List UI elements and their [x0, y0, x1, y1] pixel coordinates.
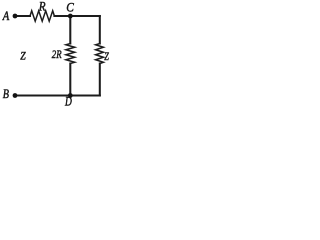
- node C junction dot: [68, 14, 73, 19]
- wire top: A to resistor R: [15, 15, 30, 17]
- resistor Z: [96, 44, 104, 64]
- svg-text:C: C: [66, 0, 74, 14]
- wire bottom: node D to bottom-right corner: [70, 94, 100, 96]
- resistor 2R: [66, 44, 75, 64]
- wire bottom: B to node D: [15, 94, 70, 96]
- svg-text:B: B: [3, 86, 9, 101]
- wire right: Z down to bottom corner: [99, 64, 101, 96]
- svg-text:A: A: [2, 8, 9, 23]
- svg-text:R: R: [38, 0, 46, 14]
- resistor R: [30, 11, 54, 21]
- wire top: node C to top-right corner: [70, 15, 100, 17]
- wire middle: node C down to resistor 2R: [69, 16, 71, 44]
- svg-text:Z: Z: [104, 51, 109, 63]
- wire right: corner down to resistor Z: [99, 16, 101, 44]
- svg-text:Z: Z: [20, 50, 26, 62]
- node B terminal dot: [13, 93, 18, 98]
- node A terminal dot: [13, 14, 18, 19]
- svg-text:D: D: [64, 94, 72, 108]
- wire middle: 2R down to node D: [69, 64, 71, 96]
- wire top: R to node C: [54, 15, 70, 17]
- svg-text:2R: 2R: [52, 47, 62, 61]
- node D junction dot: [68, 93, 73, 98]
